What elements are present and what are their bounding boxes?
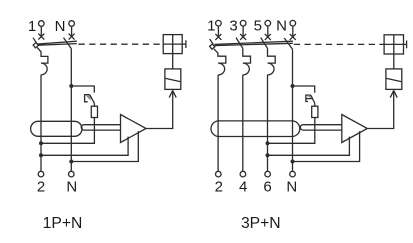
linkage bar (double line) <box>38 41 77 45</box>
trip coil diagonal <box>387 78 402 81</box>
svg-text:N: N <box>276 18 287 35</box>
test circuit wire from N <box>71 86 94 93</box>
amp supply wire from phase 5 <box>268 137 350 156</box>
contact cross pole N <box>290 34 296 40</box>
phase 5 conductor with overcurrent releases <box>267 48 275 171</box>
svg-text:1: 1 <box>207 18 215 35</box>
arrowhead into trip coil <box>169 91 176 98</box>
CT secondary tongue cap <box>300 125 303 130</box>
wire trip coil to mechanism <box>172 54 174 69</box>
svg-text:2: 2 <box>37 179 45 196</box>
contact cross pole 5 <box>265 34 271 40</box>
test resistor <box>91 106 97 117</box>
junction node test lead on phase 5 <box>266 141 270 145</box>
bottom terminal N circle <box>69 171 75 177</box>
linkage bar (double line) <box>214 41 292 45</box>
phase conductor with overcurrent releases (hook + arc) down to terminal 2 <box>37 47 48 171</box>
test circuit wire from N <box>293 86 315 93</box>
test button blade <box>90 95 95 104</box>
test resistor lead to phase <box>41 118 94 144</box>
test button mid stripe <box>306 98 312 100</box>
amp supply wire from neutral <box>293 131 360 161</box>
junction node supply on phase <box>39 153 43 157</box>
phase 3 conductor with overcurrent releases <box>243 48 251 171</box>
bottom terminal 2 circle <box>38 171 44 177</box>
svg-text:N: N <box>66 179 77 196</box>
pole 1 moving blade <box>210 39 214 45</box>
pole 3 moving blade <box>236 38 243 49</box>
junction node on N for test circuit <box>69 84 73 88</box>
mechanism cross <box>384 35 403 54</box>
bottom terminal 2 circle <box>216 171 222 177</box>
trip coil diagonal <box>166 78 181 81</box>
amplifier triangle <box>342 115 368 143</box>
junction node test lead on phase <box>39 141 43 145</box>
test button bracket <box>306 95 311 101</box>
terminal 3 circle <box>240 20 246 26</box>
arrowhead into trip coil <box>390 91 397 98</box>
terminal 1 circle <box>216 20 222 26</box>
svg-text:1P+N: 1P+N <box>43 215 83 232</box>
test button bracket <box>85 95 90 102</box>
terminal N circle <box>290 20 296 26</box>
svg-text:5: 5 <box>254 18 262 35</box>
test resistor lead top <box>93 103 95 106</box>
CT toroid <box>31 121 82 136</box>
junction node supply on neutral <box>69 160 73 164</box>
amp supply wire from neutral <box>71 131 138 161</box>
pole N moving blade <box>64 38 72 49</box>
neutral conductor wire <box>70 49 72 172</box>
svg-text:4: 4 <box>239 178 247 195</box>
svg-text:N: N <box>286 178 297 195</box>
bottom terminal 6 circle <box>265 171 271 177</box>
CT secondary pair wires <box>84 125 121 130</box>
terminal 5 lead wire <box>267 26 269 37</box>
amp output wire <box>367 90 393 128</box>
mechanism cross <box>163 35 182 54</box>
phase 1 conductor with overcurrent releases <box>214 49 226 172</box>
mechanism side tick <box>182 40 186 48</box>
pole N moving blade <box>284 38 292 49</box>
mechanism square <box>384 35 403 54</box>
svg-text:3: 3 <box>229 18 237 35</box>
terminal 1 lead wire <box>217 26 219 37</box>
amp supply wire from phase <box>41 137 128 156</box>
trip coil (release) <box>386 69 402 90</box>
junction node supply on neutral <box>291 160 295 164</box>
svg-text:N: N <box>55 18 66 35</box>
contact cross pole 3 <box>240 34 246 40</box>
pole 1 moving blade <box>33 38 37 44</box>
test resistor lead top <box>314 103 316 106</box>
terminal 1 lead wire <box>40 26 42 36</box>
terminal 5 circle <box>265 20 271 26</box>
contact cross pole 1 <box>215 34 221 40</box>
terminal N lead wire <box>71 26 73 36</box>
dashed mechanical linkage <box>79 43 164 45</box>
bottom terminal 4 circle <box>240 171 246 177</box>
test resistor <box>312 106 318 117</box>
test resistor lead to phase 5 <box>268 118 315 144</box>
handle diamond <box>210 44 215 49</box>
CT secondary tongue cap <box>81 125 84 130</box>
mechanism square <box>163 35 182 54</box>
svg-text:6: 6 <box>263 178 271 195</box>
terminal N lead wire <box>292 26 294 37</box>
contact cross pole N <box>69 34 75 40</box>
CT secondary pair wires <box>303 125 342 130</box>
svg-text:1: 1 <box>28 18 36 35</box>
amp output wire <box>146 90 173 128</box>
svg-text:3P+N: 3P+N <box>241 215 281 232</box>
mechanism side tick <box>404 41 407 49</box>
terminal 3 lead wire <box>242 26 244 37</box>
amplifier triangle <box>121 115 147 143</box>
trip coil (release) <box>165 69 181 90</box>
handle diamond <box>33 43 38 48</box>
neutral conductor wire <box>292 49 294 171</box>
test button blade <box>311 95 315 103</box>
bottom terminal N circle <box>290 171 296 177</box>
junction node supply on phase 5 <box>266 153 270 157</box>
dashed mechanical linkage <box>294 43 384 45</box>
contact cross pole 1 <box>38 34 44 40</box>
terminal 1 circle <box>39 21 45 27</box>
wire trip coil to mechanism <box>393 54 395 69</box>
terminal N circle <box>69 21 75 27</box>
test button actuator wedge <box>306 96 311 99</box>
junction node on N for test circuit <box>291 84 295 88</box>
svg-text:2: 2 <box>215 178 223 195</box>
CT toroid <box>211 121 300 137</box>
pole 5 moving blade <box>261 38 268 49</box>
test button actuator wedge <box>86 95 91 101</box>
